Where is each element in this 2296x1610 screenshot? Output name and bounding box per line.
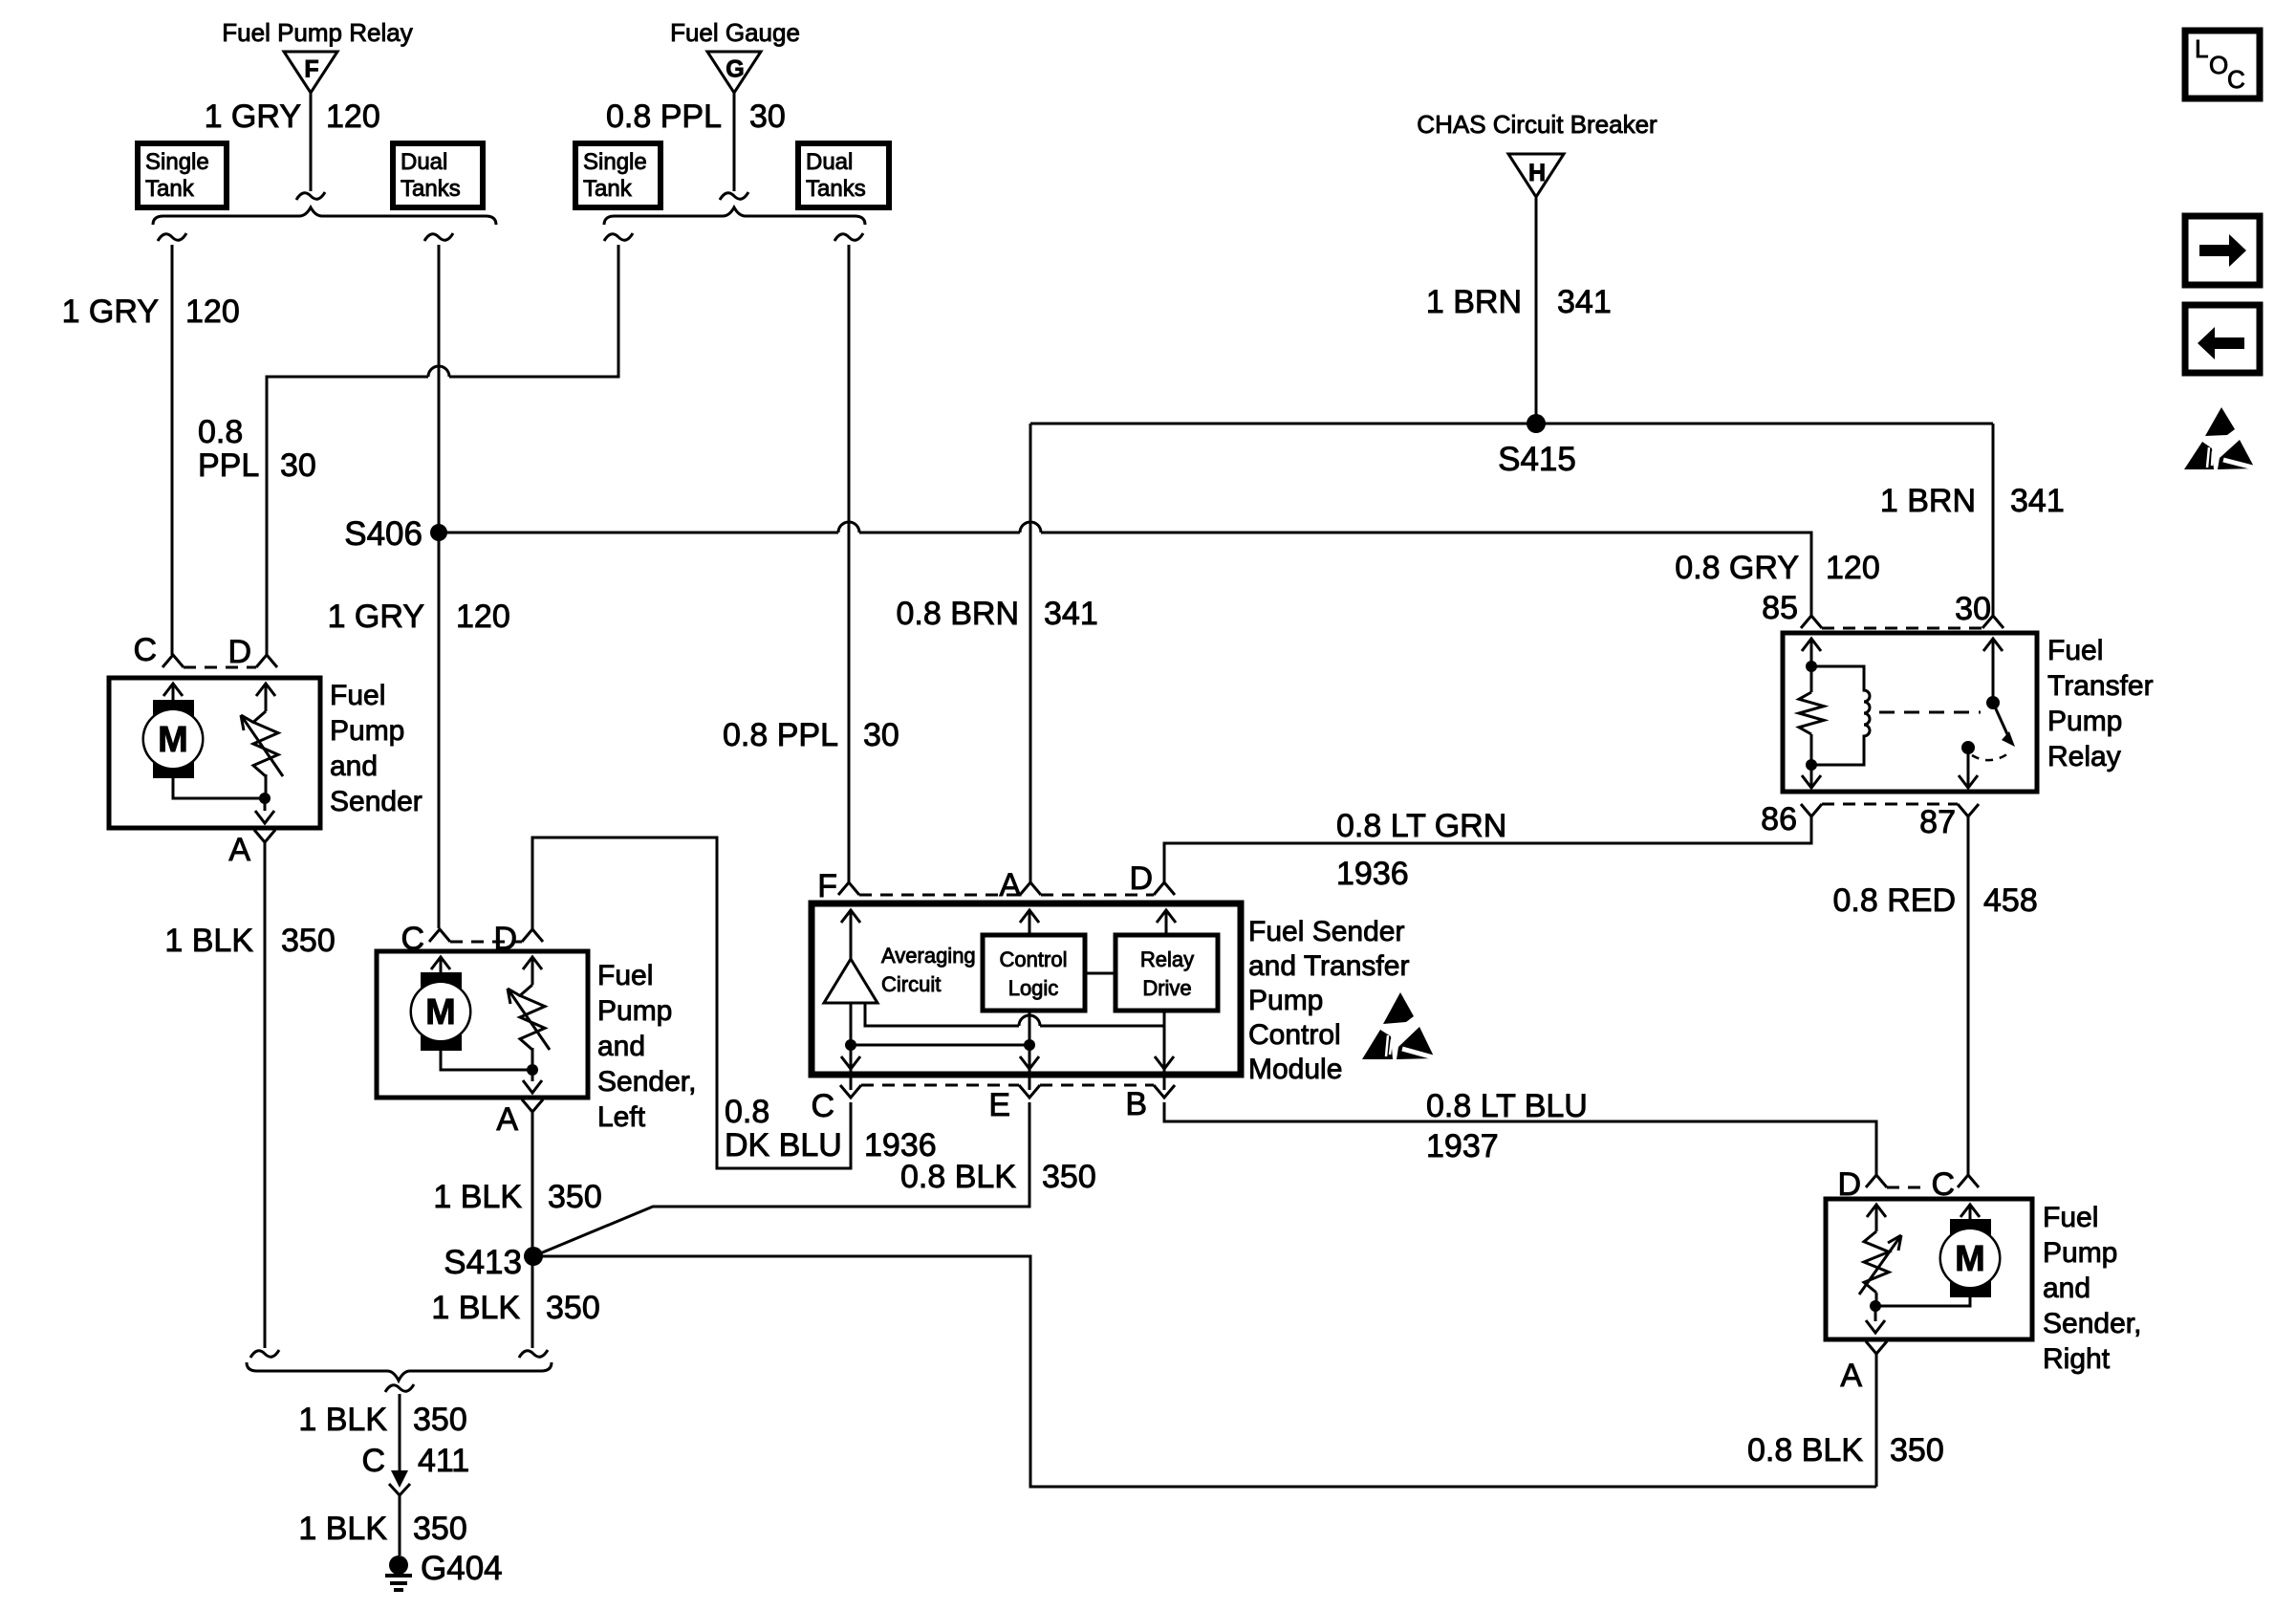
wire 0.8 PPL 30 from gauge G [733, 93, 736, 191]
svg-text:120: 120 [326, 98, 380, 135]
sender variable resistor [520, 985, 545, 1050]
box Fuel Pump and Sender [109, 678, 320, 828]
svg-text:Drive: Drive [1142, 976, 1191, 1000]
splice S415 [1527, 414, 1546, 433]
switch arm [1993, 703, 2007, 734]
svg-text:Tanks: Tanks [401, 176, 461, 202]
junction [1806, 759, 1817, 771]
svg-text:G404: G404 [421, 1550, 503, 1587]
svg-text:and: and [330, 751, 378, 782]
svg-text:30: 30 [280, 447, 316, 484]
svg-text:458: 458 [1983, 882, 2038, 919]
junction [845, 1039, 856, 1051]
svg-text:C: C [361, 1443, 385, 1479]
ESD sensitivity symbol [2205, 407, 2235, 436]
wire 0.8 LT GRN 1936 module D to relay 86 [1164, 816, 1811, 882]
box Control Logic [983, 935, 1085, 1011]
svg-text:350: 350 [1890, 1432, 1944, 1469]
wire 1 BRN 341 from breaker H to S415 [1535, 198, 1538, 424]
wire 1 GRY 120 single tank to fuel pump C [171, 245, 174, 655]
wire to pin 86 [1810, 765, 1813, 788]
pin A terminal [1866, 1341, 1887, 1354]
sender feed arrow [523, 957, 542, 969]
wire averaging to pin C [850, 1003, 853, 1090]
svg-text:1 BLK: 1 BLK [433, 1179, 522, 1215]
pin C terminal [840, 1085, 861, 1098]
svg-text:0.8 BRN: 0.8 BRN [897, 596, 1020, 632]
svg-text:M: M [1955, 1239, 1985, 1279]
wire 0.8 BRN 341 S415 to module pin A [1029, 424, 1032, 882]
relay switch common from pin 30 [1983, 639, 2003, 651]
svg-text:1 BRN: 1 BRN [1426, 284, 1522, 320]
pin B exit arrow [1155, 1056, 1174, 1069]
wire control logic to pin E [1029, 1011, 1031, 1090]
pin 85 terminal [1801, 616, 1822, 628]
internal bus to pin B [1040, 1025, 1164, 1028]
svg-text:F: F [817, 868, 837, 904]
svg-text:Fuel Gauge: Fuel Gauge [670, 18, 800, 47]
svg-text:350: 350 [1042, 1159, 1096, 1195]
svg-text:341: 341 [1044, 596, 1098, 632]
svg-text:350: 350 [281, 923, 336, 959]
pin 87 terminal [1958, 804, 1979, 816]
svg-text:M: M [158, 720, 188, 760]
svg-text:87: 87 [1919, 804, 1956, 840]
pin dashed line F-A-D [859, 894, 1020, 897]
wire hop over PPL wire [838, 522, 859, 533]
box Fuel Pump and Sender Right [1826, 1199, 2032, 1339]
svg-text:Pump: Pump [2043, 1237, 2117, 1269]
svg-text:Tank: Tank [145, 176, 195, 202]
svg-text:0.8 BLK: 0.8 BLK [900, 1159, 1016, 1195]
junction [527, 1064, 538, 1076]
svg-text:A: A [1840, 1358, 1862, 1394]
switch pivot [1986, 696, 2000, 709]
pin dashed line 85-30 [1822, 627, 1982, 630]
pin dashed line C-D [184, 666, 256, 669]
ground brace joining BLK wires [247, 1362, 552, 1381]
wire to pin A [531, 1070, 534, 1081]
svg-text:Fuel Sender: Fuel Sender [1248, 916, 1404, 947]
svg-text:A: A [496, 1101, 518, 1138]
svg-text:Relay: Relay [2047, 741, 2121, 772]
internal bus from averaging circuit [865, 1003, 1019, 1026]
svg-text:0.8 LT GRN: 0.8 LT GRN [1336, 808, 1506, 844]
pin dashed line C-D [450, 941, 522, 944]
svg-text:C: C [811, 1088, 834, 1124]
svg-text:1937: 1937 [1426, 1128, 1499, 1164]
svg-text:Left: Left [597, 1101, 646, 1133]
pin 86 terminal [1801, 804, 1822, 816]
internal link C to E [851, 1044, 1029, 1047]
svg-text:Module: Module [1248, 1054, 1342, 1085]
svg-text:86: 86 [1761, 801, 1797, 838]
wire break [720, 192, 748, 200]
svg-text:Single: Single [145, 149, 209, 175]
svg-text:Fuel: Fuel [597, 960, 653, 991]
svg-text:1936: 1936 [1336, 856, 1409, 892]
svg-text:0.8 PPL: 0.8 PPL [723, 717, 838, 753]
motor M fuel pump right [1950, 1219, 1991, 1237]
junction [1870, 1300, 1881, 1312]
motor feed arrow [1960, 1205, 1980, 1217]
svg-text:120: 120 [185, 294, 240, 330]
pin A terminal [1020, 882, 1041, 895]
svg-text:S415: S415 [1498, 441, 1576, 478]
relay resistor [1810, 666, 1813, 692]
link control logic to relay drive [1085, 972, 1116, 975]
svg-text:0.8: 0.8 [725, 1094, 769, 1130]
pin C terminal [429, 929, 450, 942]
wire continues [859, 532, 1020, 534]
wire right pump A down to ground run [1875, 1354, 1878, 1487]
wire to pin A [1874, 1306, 1877, 1321]
svg-text:and Transfer: and Transfer [1248, 950, 1409, 982]
wire 0.8 BLK 350 S413 to right pump A [533, 1256, 1876, 1487]
wire 0.8 LT BLU 1937 module B to right pump D [1164, 1102, 1876, 1175]
wire break [424, 233, 453, 241]
svg-text:0.8: 0.8 [198, 414, 243, 450]
junction [1024, 1039, 1035, 1051]
averaging circuit feed arrow [841, 910, 860, 923]
splice S413 [524, 1247, 543, 1266]
pin B terminal [1154, 1085, 1175, 1098]
svg-text:30: 30 [749, 98, 786, 135]
wire 1 BLK 350 pump A to ground brace [264, 842, 267, 1348]
svg-text:Sender: Sender [330, 786, 422, 817]
box Fuel Pump and Sender Left [377, 951, 588, 1098]
wire break [604, 233, 633, 241]
motor M fuel pump left [421, 972, 462, 990]
svg-text:0.8 PPL: 0.8 PPL [606, 98, 722, 135]
svg-text:L: L [2195, 34, 2208, 63]
svg-text:G: G [726, 56, 744, 83]
pin E exit arrow [1020, 1056, 1039, 1069]
wire 0.8 PPL 30 dual tanks to module pin F [848, 245, 851, 882]
pin dashed line D-C [1887, 1186, 1923, 1189]
switch throw arc dashed [1972, 751, 2011, 760]
svg-text:350: 350 [413, 1511, 467, 1547]
wire to pin A [264, 798, 267, 811]
wire 0.8 BLK 350 module E to S413 [533, 1102, 1029, 1256]
pin D terminal [1866, 1175, 1887, 1187]
connector triangle G (Fuel Gauge) [707, 52, 761, 93]
svg-text:S413: S413 [444, 1244, 522, 1281]
svg-text:350: 350 [413, 1402, 467, 1438]
svg-text:350: 350 [548, 1179, 602, 1215]
wire hop over BRN wire [1020, 522, 1041, 533]
svg-text:Right: Right [2043, 1343, 2111, 1375]
junction [1806, 661, 1817, 672]
svg-text:Control: Control [1248, 1019, 1341, 1051]
wire hop over GRY wire [428, 366, 449, 377]
wire break [158, 233, 186, 241]
svg-text:1 GRY: 1 GRY [205, 98, 301, 135]
connector triangle H (CHAS Circuit Breaker) [1508, 154, 1564, 197]
svg-text:Sender,: Sender, [2043, 1308, 2141, 1339]
wire contact to pin 87 [1967, 748, 1970, 788]
wire 0.8 GRY 120 S406 to relay pin 85 [439, 532, 838, 534]
pin A terminal [254, 830, 275, 842]
svg-text:Logic: Logic [1008, 976, 1059, 1000]
svg-text:Tank: Tank [583, 176, 633, 202]
sender feed arrow [1867, 1205, 1886, 1217]
svg-text:85: 85 [1762, 590, 1798, 626]
ESD sensitivity symbol [1383, 992, 1414, 1024]
pin F terminal [838, 882, 859, 895]
legend LOC box [2185, 31, 2260, 98]
svg-text:0.8 LT BLU: 0.8 LT BLU [1426, 1088, 1588, 1124]
wire relay drive to pin B [1163, 1011, 1166, 1090]
svg-text:D: D [1129, 860, 1153, 897]
svg-text:1 GRY: 1 GRY [62, 294, 159, 330]
svg-text:Transfer: Transfer [2047, 670, 2154, 702]
svg-text:D: D [227, 634, 251, 670]
wire 1 BLK 350 left pump A to S413 [531, 1112, 534, 1348]
motor M fuel pump [153, 700, 194, 718]
averaging circuit triangle [824, 959, 877, 1003]
wire break [519, 1350, 548, 1358]
svg-text:120: 120 [456, 598, 510, 635]
pin 30 terminal [1982, 616, 2004, 628]
legend arrow left box [2185, 305, 2260, 373]
svg-text:A: A [999, 867, 1021, 903]
svg-text:0.8 GRY: 0.8 GRY [1675, 550, 1799, 586]
svg-text:Dual: Dual [806, 149, 853, 175]
svg-text:1 BLK: 1 BLK [298, 1511, 387, 1547]
sender variable resistor [253, 711, 278, 776]
wire break [250, 1350, 279, 1358]
svg-text:S406: S406 [344, 515, 422, 553]
box Relay Drive [1116, 935, 1218, 1011]
svg-text:1 BLK: 1 BLK [298, 1402, 387, 1438]
pin dashed line C-E-B [861, 1084, 1019, 1087]
svg-text:0.8 BLK: 0.8 BLK [1747, 1432, 1863, 1469]
svg-text:411: 411 [418, 1443, 469, 1479]
svg-text:Fuel: Fuel [2047, 635, 2103, 666]
pin C terminal [1958, 1175, 1979, 1187]
wire 1 BRN 341 S415 to relay pin 30 [1992, 424, 1995, 616]
splice S406 [430, 524, 447, 541]
control logic feed arrow [1020, 910, 1039, 923]
wire break [834, 233, 863, 241]
junction [259, 793, 271, 804]
svg-text:1 GRY: 1 GRY [328, 598, 424, 635]
svg-text:F: F [304, 56, 318, 83]
pin C terminal [162, 655, 184, 667]
brace grouping single/dual tank options [153, 207, 496, 225]
box Single Tank (right) [575, 143, 661, 207]
sender variable resistor [1864, 1231, 1889, 1293]
svg-text:C: C [2227, 65, 2245, 94]
svg-text:Pump: Pump [597, 995, 672, 1027]
wire 0.8 DK BLU 1936 module C to left pump D [532, 838, 851, 1168]
connector triangle F (Fuel Pump Relay) [284, 52, 337, 93]
wire break [385, 1384, 414, 1392]
svg-text:Fuel: Fuel [2043, 1202, 2098, 1233]
relay actuation dashed link [1879, 711, 1981, 714]
relay box Fuel Transfer Pump Relay [1783, 633, 2037, 792]
brace grouping single/dual tank options [604, 207, 865, 225]
pin D terminal [1154, 882, 1175, 895]
module box Fuel Sender and Transfer Pump Control Module [812, 903, 1241, 1075]
svg-text:341: 341 [2010, 483, 2065, 519]
sender feed arrow [256, 684, 275, 696]
motor to sender link [441, 1051, 532, 1070]
svg-text:1 BLK: 1 BLK [431, 1290, 520, 1326]
motor to sender link [1875, 1297, 1970, 1306]
wire continues to relay 85 [1041, 533, 1811, 616]
svg-text:H: H [1528, 160, 1546, 186]
ground G404 symbol [389, 1556, 408, 1575]
box Single Tank (left) [138, 143, 227, 207]
svg-text:Tanks: Tanks [806, 176, 866, 202]
wire S415 distribution line [1030, 423, 1993, 425]
svg-text:PPL: PPL [198, 447, 259, 484]
svg-text:A: A [228, 832, 250, 868]
svg-text:Fuel Pump Relay: Fuel Pump Relay [222, 18, 412, 47]
relay coil feed arrow [1802, 639, 1821, 651]
svg-text:120: 120 [1826, 550, 1880, 586]
box Dual Tanks (left) [393, 143, 483, 207]
svg-text:Relay: Relay [1140, 947, 1194, 971]
svg-text:C: C [133, 632, 157, 668]
svg-text:30: 30 [1955, 591, 1991, 627]
svg-text:E: E [988, 1087, 1010, 1123]
svg-text:DK BLU: DK BLU [725, 1127, 842, 1164]
wire 1 GRY 120 dual tanks through S406 [438, 245, 441, 928]
pin dashed line 86-87 [1822, 803, 1958, 806]
pin D terminal [256, 655, 277, 667]
svg-text:1 BLK: 1 BLK [164, 923, 253, 959]
motor feed arrow [431, 957, 450, 969]
svg-text:Control: Control [1000, 947, 1068, 971]
relay drive feed arrow [1157, 910, 1176, 923]
wire 0.8 PPL 30 single tank down to junction [449, 245, 618, 377]
svg-text:O: O [2209, 51, 2228, 79]
svg-text:0.8 RED: 0.8 RED [1833, 882, 1957, 919]
relay coil [1811, 666, 1870, 765]
motor to sender link [173, 778, 265, 798]
wire 1 BLK 350 to connector C411 [399, 1394, 401, 1474]
wire 0.8 PPL continues to fuel pump D [267, 377, 428, 655]
svg-text:341: 341 [1557, 284, 1612, 320]
motor feed arrow [163, 684, 183, 696]
pin C exit arrow [841, 1056, 860, 1069]
wire break [296, 192, 325, 200]
pin E terminal [1019, 1085, 1040, 1098]
wire hop over E wire [1019, 1015, 1040, 1026]
svg-text:Sender,: Sender, [597, 1066, 696, 1098]
svg-text:350: 350 [546, 1290, 600, 1326]
svg-text:M: M [425, 992, 456, 1033]
svg-text:Averaging: Averaging [881, 944, 976, 968]
pin D terminal [522, 929, 543, 942]
svg-text:Fuel: Fuel [330, 680, 385, 711]
svg-text:and: and [597, 1031, 645, 1062]
svg-text:Circuit: Circuit [881, 972, 941, 996]
svg-text:Single: Single [583, 149, 647, 175]
wire 1 GRY 120 from relay F [310, 93, 313, 191]
svg-text:CHAS Circuit Breaker: CHAS Circuit Breaker [1417, 110, 1657, 139]
svg-text:Dual: Dual [401, 149, 447, 175]
svg-text:B: B [1125, 1086, 1147, 1122]
wire 0.8 RED 458 relay 87 to right pump C [1967, 816, 1970, 1175]
svg-text:Pump: Pump [2047, 706, 2122, 737]
pin A terminal [522, 1099, 543, 1112]
svg-text:1 BRN: 1 BRN [1880, 483, 1976, 519]
svg-text:Pump: Pump [330, 715, 404, 747]
box Dual Tanks (right) [798, 143, 889, 207]
wire 1 BLK 350 to ground G404 [399, 1495, 401, 1556]
switch contact [1961, 741, 1975, 754]
svg-text:Pump: Pump [1248, 985, 1323, 1016]
svg-text:and: and [2043, 1273, 2090, 1304]
in-line connector C411 [391, 1470, 408, 1488]
svg-text:30: 30 [863, 717, 899, 753]
legend arrow right box [2185, 216, 2260, 285]
